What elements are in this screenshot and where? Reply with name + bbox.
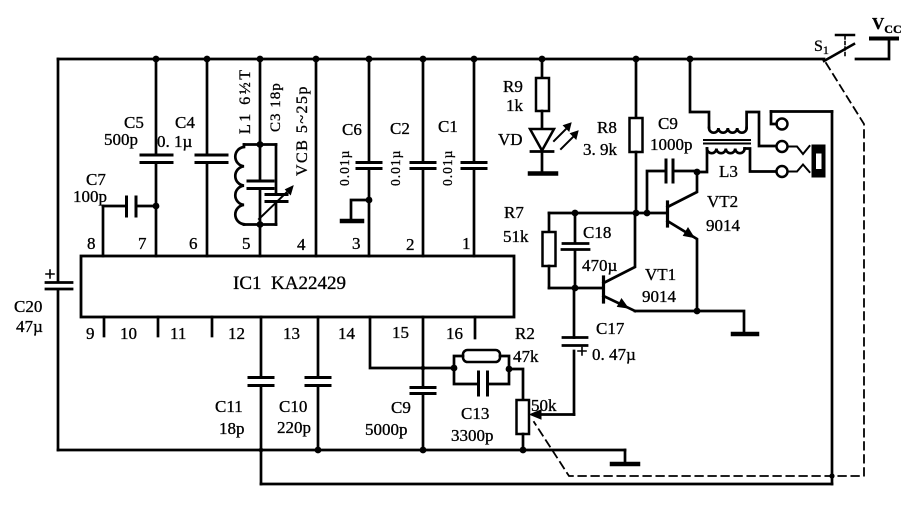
svg-text:470µ: 470µ [582,256,618,275]
wire top contact to top line [771,112,777,125]
ground (pin 3 stub) [351,200,369,219]
wire R2 right to 50k top [509,369,523,400]
node R2 left [451,365,458,372]
svg-text:0. 1µ: 0. 1µ [157,132,193,151]
capacitor C17 plates [563,338,587,346]
LED VD cathode bar [531,150,553,153]
wire VT2 base node line [549,212,666,215]
wire pin 10 stub [157,317,160,336]
svg-text:51k: 51k [503,227,529,246]
node top rail pin1 [471,56,478,63]
wire pin 13 vertical down through C10 [317,317,320,450]
svg-text:C3 18p: C3 18p [268,82,284,132]
node C9 5000p bottom rail [420,447,427,454]
capacitor C13 plates [479,372,488,395]
wire pin 5 vertical [259,59,262,256]
node top rail R8 [633,56,640,63]
node 50k bottom rail [520,447,527,454]
wire top supply rail [58,58,824,61]
transistor VT2 emitter [668,221,698,311]
wire L3 secondary left to VT2 collector node [697,149,707,173]
svg-text:6: 6 [189,234,198,253]
svg-text:14: 14 [338,324,356,343]
svg-text:C10: C10 [279,397,307,416]
svg-text:9014: 9014 [642,287,677,306]
node top rail pin5 [257,56,264,63]
capacitor VCB plates [266,195,287,202]
wire pin 16 stub [474,317,477,338]
inductor L3 secondary winding [707,149,745,154]
VT2 emitter arrowhead [684,228,695,238]
svg-text:C9: C9 [658,114,678,133]
wire tank bottom [244,223,276,226]
capacitor C7 wire and plates [103,205,156,208]
node top rail pin4 [313,56,320,63]
resistor R7 51k box [548,213,551,232]
svg-text:C18: C18 [583,223,611,242]
svg-text:1: 1 [462,234,471,253]
capacitor C4 plates [196,155,227,163]
svg-text:C2: C2 [390,119,410,138]
capacitor C5 plates [141,155,172,163]
svg-text:VCB 5~25p: VCB 5~25p [294,85,311,176]
node C18 top [572,210,579,217]
node top rail pin2 [420,56,427,63]
ground (VD) [530,171,556,176]
svg-text:1k: 1k [506,96,524,115]
capacitor C6 plates [357,163,381,169]
wire C17 top riser [573,288,576,338]
transistor VT2 base bar [666,202,669,226]
node R8 bottom VT1 collector [633,210,640,217]
svg-text:C13: C13 [461,404,489,423]
svg-text:VT1: VT1 [645,265,676,284]
switch S1 blade [824,44,854,61]
svg-text:R7: R7 [504,203,524,222]
wire right vertical (jack to lower line) [831,112,834,485]
inductor L3 primary winding [709,128,747,133]
wire R2/C13 parallel loop [454,356,509,384]
ground (emitters) [733,332,757,337]
svg-text:0. 47µ: 0. 47µ [592,345,636,364]
svg-text:3: 3 [352,234,361,253]
VCC supply bar [871,37,897,41]
svg-text:C11: C11 [215,397,243,416]
node top rail pin3 [366,56,373,63]
capacitor VCB variable branch [275,145,278,225]
inductor L1 coil [235,145,244,225]
switch S1 actuator bar [836,34,854,37]
node top rail pin6 [204,56,211,63]
wire VT1 base node line [549,287,602,290]
svg-text:5: 5 [242,234,251,253]
resistor R9 1k branch [541,59,544,78]
svg-text:C4: C4 [175,113,195,132]
capacitor C1 plates [462,163,486,169]
wire VD to ground [541,152,544,172]
jack bottom spring contact [788,165,810,173]
svg-text:L3: L3 [719,162,738,181]
node tank bottom [257,221,264,228]
capacitor C3 plates [248,181,273,189]
wire bottom ground rail [58,449,625,452]
LED VD triangle [530,129,554,151]
svg-text:VT2: VT2 [707,192,738,211]
capacitor C10 plates [306,378,330,386]
resistor R8 3.9k branch [635,59,638,118]
wire tank top [244,143,276,146]
svg-text:18p: 18p [219,419,245,438]
wire 50k wiper [538,413,574,416]
svg-text:50k: 50k [531,396,557,415]
svg-text:4: 4 [297,235,306,254]
svg-text:5000p: 5000p [365,420,408,439]
capacitor C18 plates [562,244,589,250]
IC op-amp U1 IC1 KA22429 box [81,256,514,317]
node C7 to pin7 line [153,203,160,210]
node top rail L3 feed [687,56,694,63]
svg-text:220p: 220p [277,418,311,437]
wire pin 6 vertical [206,59,209,256]
svg-text:500p: 500p [104,130,138,149]
capacitor C11 plates [249,378,273,386]
resistor R2 47k box [463,350,500,362]
node C18 bottom [572,285,579,292]
svg-text:L1 6½T: L1 6½T [237,67,254,134]
wire pin 1 vertical [473,59,476,256]
wire pin 2 vertical [422,59,425,256]
svg-text:9: 9 [86,324,95,343]
svg-text:C17: C17 [596,319,625,338]
wire pin 7 vertical [155,59,158,256]
wire left vertical rail [57,59,60,450]
svg-text:100p: 100p [73,187,107,206]
wire pin 8 stub [102,206,105,256]
svg-text:R2: R2 [515,324,535,343]
svg-text:7: 7 [138,234,147,253]
capacitor VCB arrow [259,190,289,219]
L3 core lines [704,140,750,144]
ground (bottom rail right end) [624,450,627,462]
svg-text:3. 9k: 3. 9k [583,140,618,159]
svg-text:8: 8 [87,234,96,253]
jack middle spring contact [788,146,810,154]
node pin3 ground stub [366,197,373,204]
svg-text:0.01µ: 0.01µ [388,150,403,186]
node C9 1000p left riser [644,210,651,217]
wire pin 14 vertical and horizontal to R2 [370,317,454,368]
transistor VT2 collector [668,172,698,207]
jack plug body [812,145,825,177]
svg-text:C1: C1 [438,117,458,136]
wire L3 feed from rail [690,59,709,127]
svg-text:VD: VD [498,130,523,149]
node pin12 rail crossing [259,448,264,453]
capacitor C2 plates [411,163,435,169]
svg-text:47k: 47k [513,347,539,366]
jack middle contact [777,141,788,152]
node VT2 collector C9 L3 [694,169,701,176]
dashed linkage S1 to 50k wiper [534,63,864,476]
svg-text:C6: C6 [342,120,362,139]
LED VD emission arrows [554,126,576,149]
wire lower return line (pin12 to right side) [261,483,832,486]
capacitor C20 polarity plus [46,270,54,278]
node top rail R9 [539,56,546,63]
wire 50k bottom [522,434,525,450]
svg-text:9014: 9014 [706,216,741,235]
transistor VT1 emitter [604,296,636,311]
transistor VT1 collector [604,213,636,283]
capacitor C9 1000p wires [647,171,697,213]
capacitor C9 5000p plates [411,388,435,394]
svg-text:15: 15 [392,323,409,342]
capacitor C9 1000p plates [666,160,673,182]
capacitor C20 plates [46,283,72,290]
wire pin 4 vertical [315,59,318,256]
svg-text:11: 11 [170,324,186,343]
wire pin 9 stub [103,317,106,336]
svg-text:13: 13 [283,324,300,343]
svg-text:12: 12 [228,324,245,343]
node tank top [257,141,264,148]
svg-text:47µ: 47µ [16,317,43,336]
wire pin 3 vertical [368,59,371,256]
node top rail pin7 [153,56,160,63]
capacitor C18 wires [574,213,577,288]
wire pin 12 vertical down through C11 [260,317,263,484]
svg-text:IC1 KA22429: IC1 KA22429 [233,273,346,294]
svg-text:1000p: 1000p [650,135,693,154]
svg-text:R9: R9 [503,77,523,96]
wire L3 primary right to middle contact [747,112,776,146]
wire pin 15 vertical down through C9 [422,317,425,450]
svg-text:2: 2 [406,235,415,254]
node lower line right vertical [829,473,834,478]
node R2 right [506,366,513,373]
jack top contact [777,119,788,130]
VT1 emitter arrowhead [618,299,629,308]
wire L3 secondary right to bottom contact [745,149,776,172]
node VT2 emitter ground line [694,308,701,315]
jack bottom contact [777,166,788,177]
svg-text:R8: R8 [597,118,617,137]
wire wiper riser to C17 [573,351,576,415]
svg-text:3300p: 3300p [451,426,494,445]
wire jack top line [771,110,832,113]
svg-text:0.01µ: 0.01µ [440,150,455,186]
transistor VT1 base bar [602,277,605,302]
50k wiper arrowhead [530,410,541,419]
wire S1 to VCC [856,40,889,59]
svg-text:0.01µ: 0.01µ [337,150,352,186]
svg-text:10: 10 [120,324,137,343]
svg-text:16: 16 [446,324,463,343]
capacitor C17 polarity plus [578,348,586,356]
node C10 bottom rail [315,447,322,454]
svg-text:C20: C20 [14,297,42,316]
wire pin 11 stub [211,317,214,336]
wire VT1/VT2 emitters to ground [635,311,744,332]
svg-text:C9: C9 [391,398,411,417]
node pin14 wire pin15 crossing [421,366,426,371]
potentiometer 50k box [517,400,530,434]
